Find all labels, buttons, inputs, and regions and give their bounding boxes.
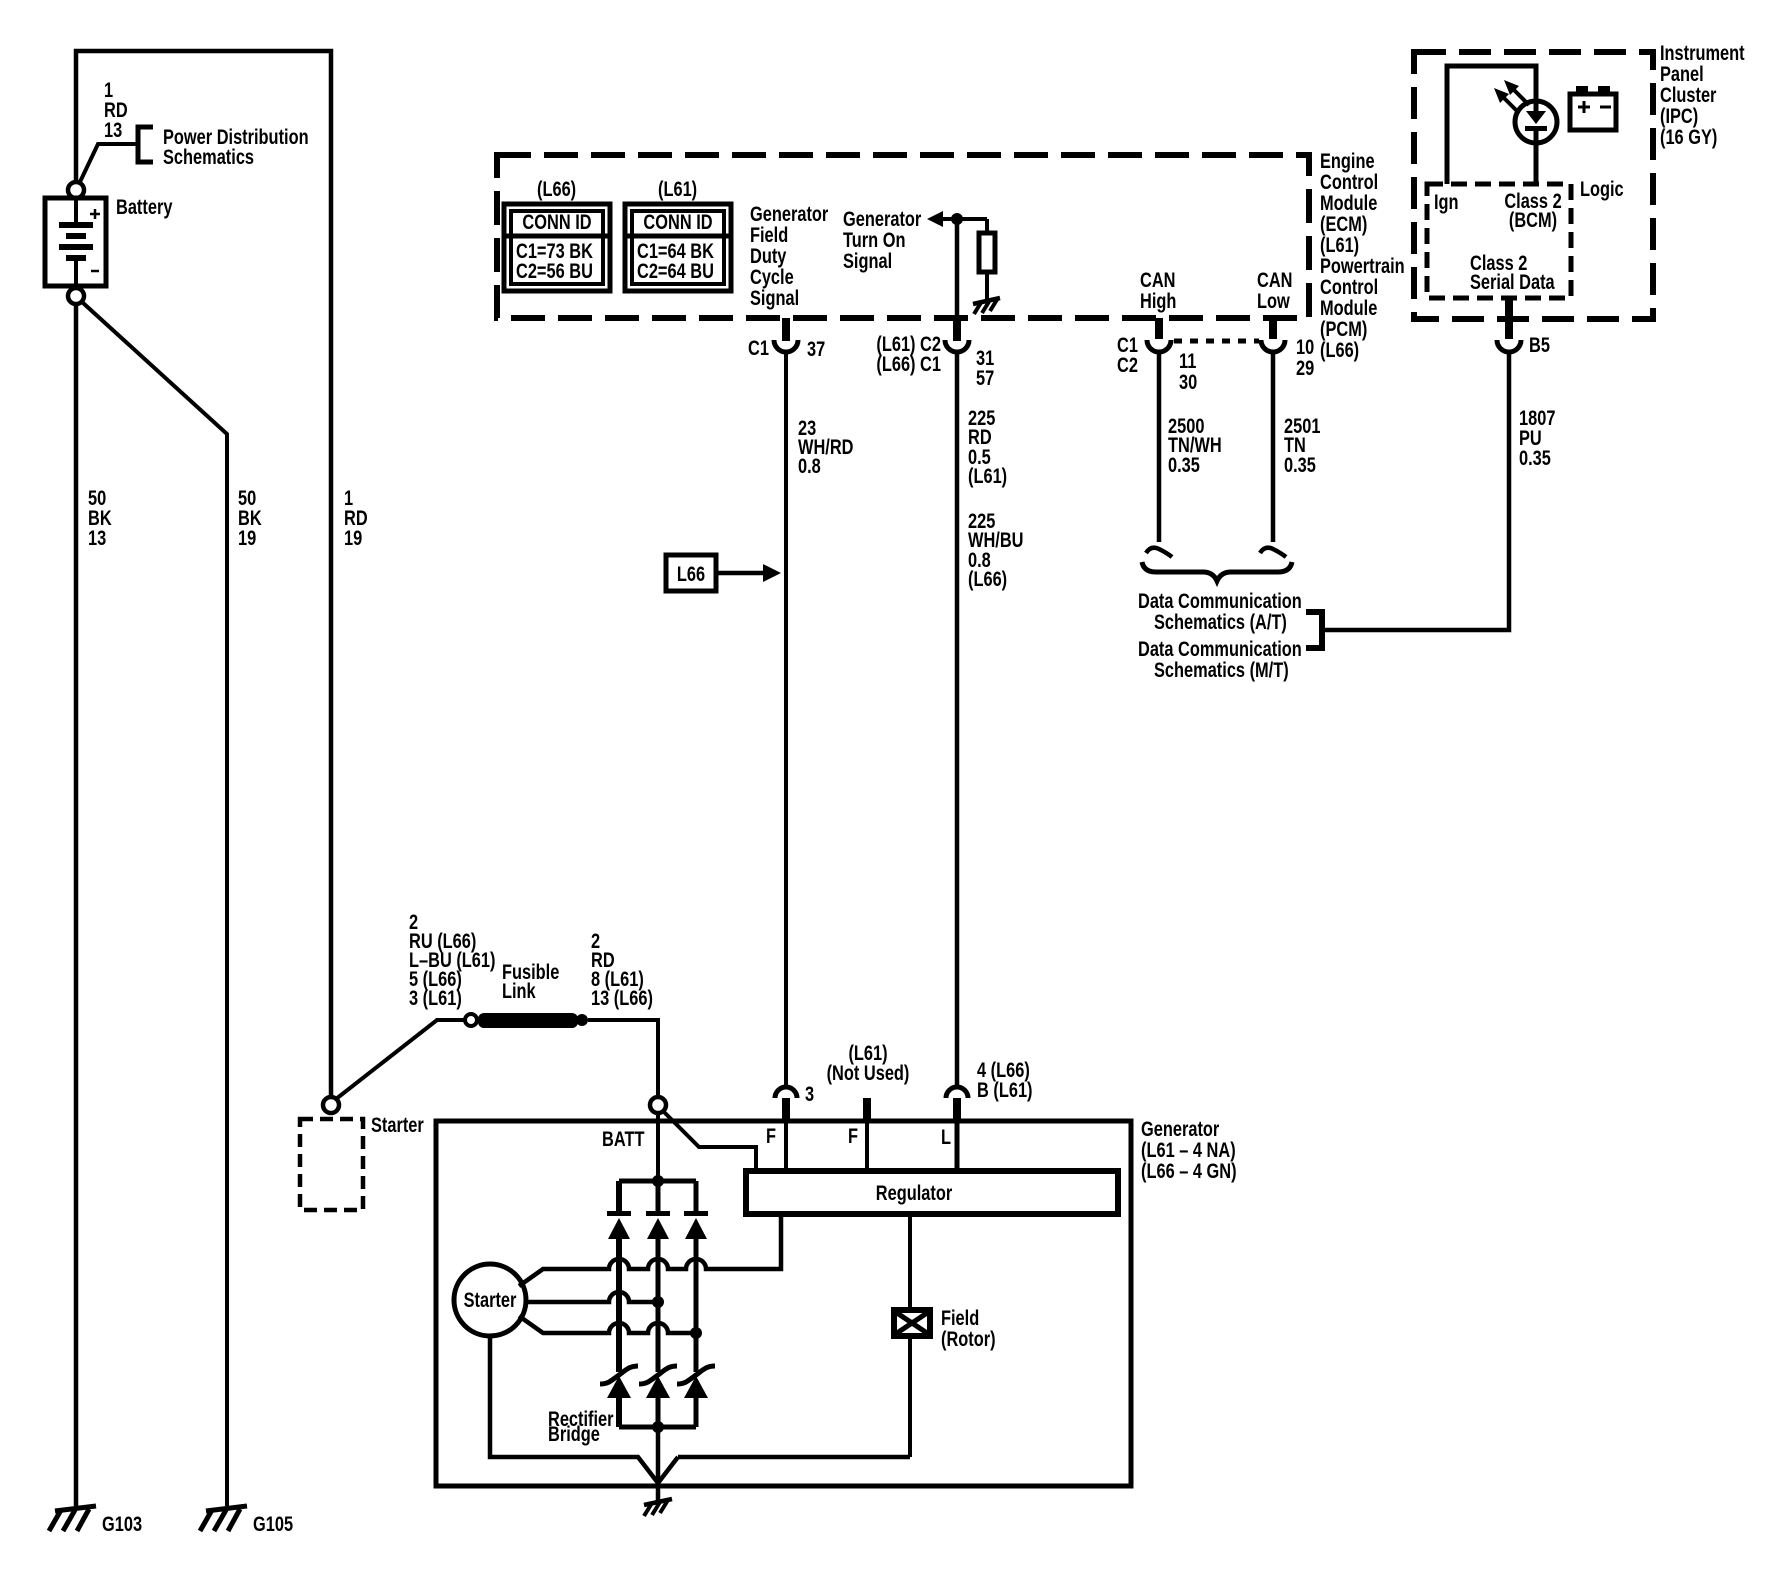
connector pin 3 (F duty cycle)	[775, 1087, 797, 1121]
pin label L	[941, 1125, 951, 1148]
label Battery	[116, 195, 173, 218]
svg-text:19: 19	[344, 526, 362, 549]
zener diode Z3	[677, 1366, 715, 1398]
wire label 50 BK 13	[88, 486, 112, 549]
svg-text:Data Communication: Data Communication	[1138, 589, 1302, 612]
node battery positive terminal	[68, 182, 84, 198]
wire serial data link	[1322, 352, 1509, 630]
svg-text:Module: Module	[1320, 296, 1377, 319]
wire label 225 WH/BU 0.8 (L66)	[968, 509, 1023, 590]
node power distribution bracket	[138, 127, 153, 162]
diode D3	[684, 1211, 708, 1239]
wire field ground return	[658, 1457, 910, 1483]
brace data communication	[1142, 562, 1292, 581]
label Starter	[371, 1113, 424, 1136]
label 4 (L66) B (L61)	[977, 1058, 1033, 1101]
svg-text:(L61): (L61)	[968, 464, 1007, 487]
svg-text:B (L61): B (L61)	[977, 1078, 1033, 1101]
fusible link FL	[465, 1013, 588, 1028]
svg-text:37: 37	[807, 337, 825, 360]
svg-text:Low: Low	[1257, 289, 1290, 312]
wire bridge to ground	[656, 1427, 661, 1502]
svg-text:3: 3	[805, 1082, 814, 1105]
svg-text:(L66): (L66)	[968, 567, 1007, 590]
node bridge bottom junction	[652, 1421, 664, 1433]
svg-text:Module: Module	[1320, 191, 1377, 214]
svg-text:57: 57	[976, 366, 994, 389]
node phase C junction	[690, 1327, 702, 1339]
label Data Communication Schematics	[1138, 589, 1302, 681]
regulator box	[746, 1171, 1118, 1214]
wire phase C	[519, 1316, 696, 1333]
wire starter ground return	[490, 1336, 658, 1483]
generator box	[436, 1121, 1131, 1486]
svg-text:0.35: 0.35	[1284, 453, 1316, 476]
label Logic	[1580, 177, 1624, 200]
svg-text:Generator: Generator	[843, 207, 922, 230]
svg-text:C2: C2	[1117, 353, 1138, 376]
label Engine Control Module (ECM)...	[1320, 149, 1405, 361]
svg-text:13: 13	[104, 118, 122, 141]
wire dotted twisted pair link	[1174, 339, 1259, 344]
svg-text:Regulator: Regulator	[876, 1181, 953, 1204]
wire label 23 WH/RD 0.8	[798, 416, 853, 477]
wire 23 WH/RD 0.8 (duty cycle)	[784, 352, 788, 1087]
wire F pin to regulator	[784, 1121, 788, 1170]
wire field to ground bus	[908, 1336, 912, 1457]
LED arrows	[1494, 80, 1529, 113]
label Generator (L61 - 4 NA)(L66 - 4 GN)	[1141, 1117, 1237, 1182]
svg-text:CONN ID: CONN ID	[522, 210, 591, 233]
wire label 225 RD 0.5 (L61)	[968, 406, 1007, 487]
svg-text:Generator: Generator	[750, 202, 829, 225]
LED charge indicator	[1515, 101, 1557, 143]
turn-on signal arrow	[927, 211, 987, 227]
label (L61)(Not Used)	[827, 1041, 910, 1084]
svg-text:Powertrain: Powertrain	[1320, 254, 1405, 277]
svg-text:(BCM): (BCM)	[1509, 208, 1557, 231]
wire BATT into bridge	[656, 1113, 660, 1181]
label Instrument Panel Cluster (IPC)(16 GY)	[1660, 41, 1745, 148]
wire 2501 TN CAN Low	[1271, 352, 1276, 542]
label BATT	[602, 1127, 645, 1150]
connector CAN Low 10/29	[1261, 318, 1285, 352]
bridge left leg	[616, 1181, 622, 1427]
svg-text:(Rotor): (Rotor)	[941, 1327, 996, 1350]
svg-text:Schematics (M/T): Schematics (M/T)	[1154, 658, 1289, 681]
svg-text:Engine: Engine	[1320, 149, 1375, 172]
svg-text:(L61): (L61)	[658, 177, 697, 200]
wire 2500 TN/WH CAN High	[1157, 352, 1162, 542]
svg-text:Starter: Starter	[371, 1113, 424, 1136]
wire label 1 RD 19	[344, 486, 368, 549]
pin F2 stub (not used)	[863, 1098, 871, 1121]
svg-text:Duty: Duty	[750, 244, 787, 267]
bridge right leg	[694, 1181, 699, 1427]
label Class 2 Serial Data	[1470, 251, 1555, 293]
node starter B+ terminal	[323, 1097, 339, 1113]
rectifier bridge top bar	[619, 1179, 696, 1184]
logic dashed box	[1427, 184, 1571, 298]
svg-text:Bridge: Bridge	[548, 1422, 600, 1445]
battery BAT	[45, 198, 106, 288]
wire label 2500 TN/WH 0.35	[1168, 414, 1222, 476]
node turn-on junction	[951, 213, 963, 225]
svg-text:(ECM): (ECM)	[1320, 212, 1367, 235]
svg-text:30: 30	[1179, 370, 1197, 393]
starter motor M	[454, 1264, 526, 1336]
svg-text:Data Communication: Data Communication	[1138, 637, 1302, 660]
wire 50 BK 19 (battery negative to G105)	[82, 302, 227, 1506]
svg-text:Serial Data: Serial Data	[1470, 270, 1555, 293]
label Regulator	[876, 1181, 953, 1204]
svg-text:11: 11	[1179, 349, 1196, 372]
svg-text:(L66): (L66)	[537, 177, 576, 200]
wire label 2501 TN 0.35	[1284, 414, 1320, 476]
zener diode Z2	[639, 1366, 677, 1398]
svg-text:(16 GY): (16 GY)	[1660, 125, 1717, 148]
svg-text:Instrument: Instrument	[1660, 41, 1745, 64]
svg-text:High: High	[1140, 289, 1176, 312]
svg-text:13 (L66): 13 (L66)	[591, 986, 653, 1009]
connector C1 pin 37	[774, 318, 798, 352]
svg-text:Ign: Ign	[1434, 190, 1459, 213]
label Generator Turn On Signal	[843, 207, 922, 272]
connector CAN High C1/C2	[1147, 318, 1171, 352]
label Ign	[1434, 190, 1459, 213]
conn id table L61	[625, 204, 731, 291]
svg-text:B5: B5	[1529, 333, 1550, 356]
label (L61)	[658, 177, 697, 200]
node data comm bracket	[1306, 612, 1322, 648]
wire L pin to regulator	[955, 1121, 960, 1170]
svg-text:BATT: BATT	[602, 1127, 645, 1150]
svg-text:10: 10	[1296, 335, 1314, 358]
label (L66)	[537, 177, 576, 200]
IPC dashed box	[1414, 52, 1653, 319]
connector C2(L61)/C1(L66)	[945, 318, 969, 352]
bridge middle leg	[656, 1181, 661, 1427]
svg-text:CONN ID: CONN ID	[643, 210, 712, 233]
svg-text:(L66) C1: (L66) C1	[876, 352, 941, 375]
wire Ign loop	[1447, 66, 1536, 184]
label Rectifier Bridge	[548, 1407, 614, 1445]
svg-text:Cluster: Cluster	[1660, 83, 1717, 106]
wire fusible link to BATT	[588, 1020, 658, 1096]
svg-text:G105: G105	[253, 1512, 293, 1535]
node phase B junction	[652, 1296, 664, 1308]
label Class 2 (BCM)	[1504, 189, 1561, 231]
svg-text:G103: G103	[102, 1512, 142, 1535]
ground G105	[200, 1506, 247, 1531]
diode D2	[646, 1211, 670, 1239]
field rotor winding	[894, 1310, 930, 1336]
svg-text:C2=64 BU: C2=64 BU	[637, 259, 714, 282]
svg-text:19: 19	[238, 526, 256, 549]
starter dashed box	[300, 1119, 363, 1210]
svg-text:C2=56 BU: C2=56 BU	[516, 259, 593, 282]
svg-text:29: 29	[1296, 356, 1314, 379]
svg-text:CAN: CAN	[1257, 268, 1292, 291]
svg-text:Panel: Panel	[1660, 62, 1704, 85]
wire 225 turn-on signal	[955, 219, 960, 1087]
svg-text:Schematics (A/T): Schematics (A/T)	[1154, 610, 1287, 633]
svg-text:CAN: CAN	[1140, 268, 1175, 291]
svg-text:L: L	[941, 1125, 951, 1148]
wire LED to logic	[1534, 143, 1539, 184]
wire hook CAN Low continue	[1260, 548, 1286, 557]
svg-text:0.35: 0.35	[1519, 446, 1551, 469]
pin label F2	[848, 1124, 858, 1147]
wire phase A (regulator sense)	[519, 1214, 781, 1286]
node L66 reference box	[666, 555, 781, 591]
wire label 2 RU(L66) L-BU(L61) 5(L66) 3(L61)	[409, 910, 495, 1009]
svg-text:0.8: 0.8	[798, 454, 821, 477]
wire to power distribution	[79, 144, 137, 184]
svg-text:Control: Control	[1320, 170, 1378, 193]
svg-text:L66: L66	[677, 562, 705, 585]
ECM dashed box	[497, 155, 1309, 318]
resistor R (pull-up)	[979, 219, 995, 301]
ground generator case	[644, 1499, 672, 1516]
wire label 2 RD 8(L61) 13(L66)	[591, 929, 653, 1009]
ground ECM internal	[973, 298, 1000, 314]
ground G103	[49, 1506, 96, 1531]
wire label 1807 PU 0.35	[1519, 406, 1555, 469]
zener diode Z1	[600, 1366, 638, 1398]
label Power Distribution Schematics	[163, 125, 309, 168]
svg-text:F: F	[766, 1124, 776, 1147]
svg-text:Signal: Signal	[843, 249, 892, 272]
diode D1	[607, 1211, 631, 1239]
wire BATT to regulator	[663, 1111, 756, 1170]
wire phase B	[526, 1292, 658, 1302]
node battery negative terminal	[68, 288, 84, 304]
wire label 50 BK 19	[238, 486, 262, 549]
svg-text:Field: Field	[750, 223, 788, 246]
label CAN High	[1140, 268, 1176, 312]
svg-text:13: 13	[88, 526, 106, 549]
svg-text:3 (L61): 3 (L61)	[409, 986, 462, 1009]
svg-text:Signal: Signal	[750, 286, 799, 309]
wire battery positive feed loop (top)	[76, 51, 331, 1096]
svg-text:(L66 – 4 GN): (L66 – 4 GN)	[1141, 1159, 1237, 1182]
svg-text:Cycle: Cycle	[750, 265, 794, 288]
svg-text:Schematics: Schematics	[163, 145, 254, 168]
wire label 1 RD 13	[104, 78, 128, 141]
svg-text:Logic: Logic	[1580, 177, 1624, 200]
svg-text:Battery: Battery	[116, 195, 173, 218]
svg-text:Field: Field	[941, 1306, 979, 1329]
svg-text:Starter: Starter	[464, 1288, 517, 1311]
svg-text:(Not Used): (Not Used)	[827, 1061, 910, 1084]
connector pin 4(L66) B(L61)	[946, 1087, 968, 1121]
svg-text:Link: Link	[502, 979, 536, 1002]
battery icon IPC	[1570, 86, 1616, 130]
conn id table L66	[504, 204, 610, 291]
pin label F	[766, 1124, 776, 1147]
svg-text:F: F	[848, 1124, 858, 1147]
rectifier bridge bottom bar	[619, 1425, 696, 1430]
label CAN Low	[1257, 268, 1292, 312]
label Generator Field Duty Cycle Signal	[750, 202, 829, 309]
svg-text:0.35: 0.35	[1168, 453, 1200, 476]
svg-text:C1: C1	[748, 336, 769, 359]
wire starter to fusible link	[336, 1020, 464, 1099]
wire 50 BK 13 (battery negative to G103)	[74, 304, 79, 1506]
svg-text:(IPC): (IPC)	[1660, 104, 1698, 127]
svg-text:(L61 – 4 NA): (L61 – 4 NA)	[1141, 1138, 1236, 1161]
connector B5	[1497, 298, 1521, 352]
svg-text:Generator: Generator	[1141, 1117, 1220, 1140]
node bridge top junction	[652, 1175, 664, 1187]
label Fusible Link	[502, 960, 559, 1002]
wire F2 pin to regulator	[865, 1121, 869, 1170]
svg-text:(L61): (L61)	[1320, 233, 1359, 256]
wire hook CAN High continue	[1146, 548, 1172, 557]
label Field (Rotor)	[941, 1306, 996, 1350]
svg-text:Turn On: Turn On	[843, 228, 905, 251]
node BATT terminal circle	[650, 1097, 666, 1113]
svg-text:(PCM): (PCM)	[1320, 317, 1367, 340]
svg-text:(L66): (L66)	[1320, 338, 1359, 361]
svg-text:Control: Control	[1320, 275, 1378, 298]
wire regulator to field	[908, 1214, 912, 1310]
